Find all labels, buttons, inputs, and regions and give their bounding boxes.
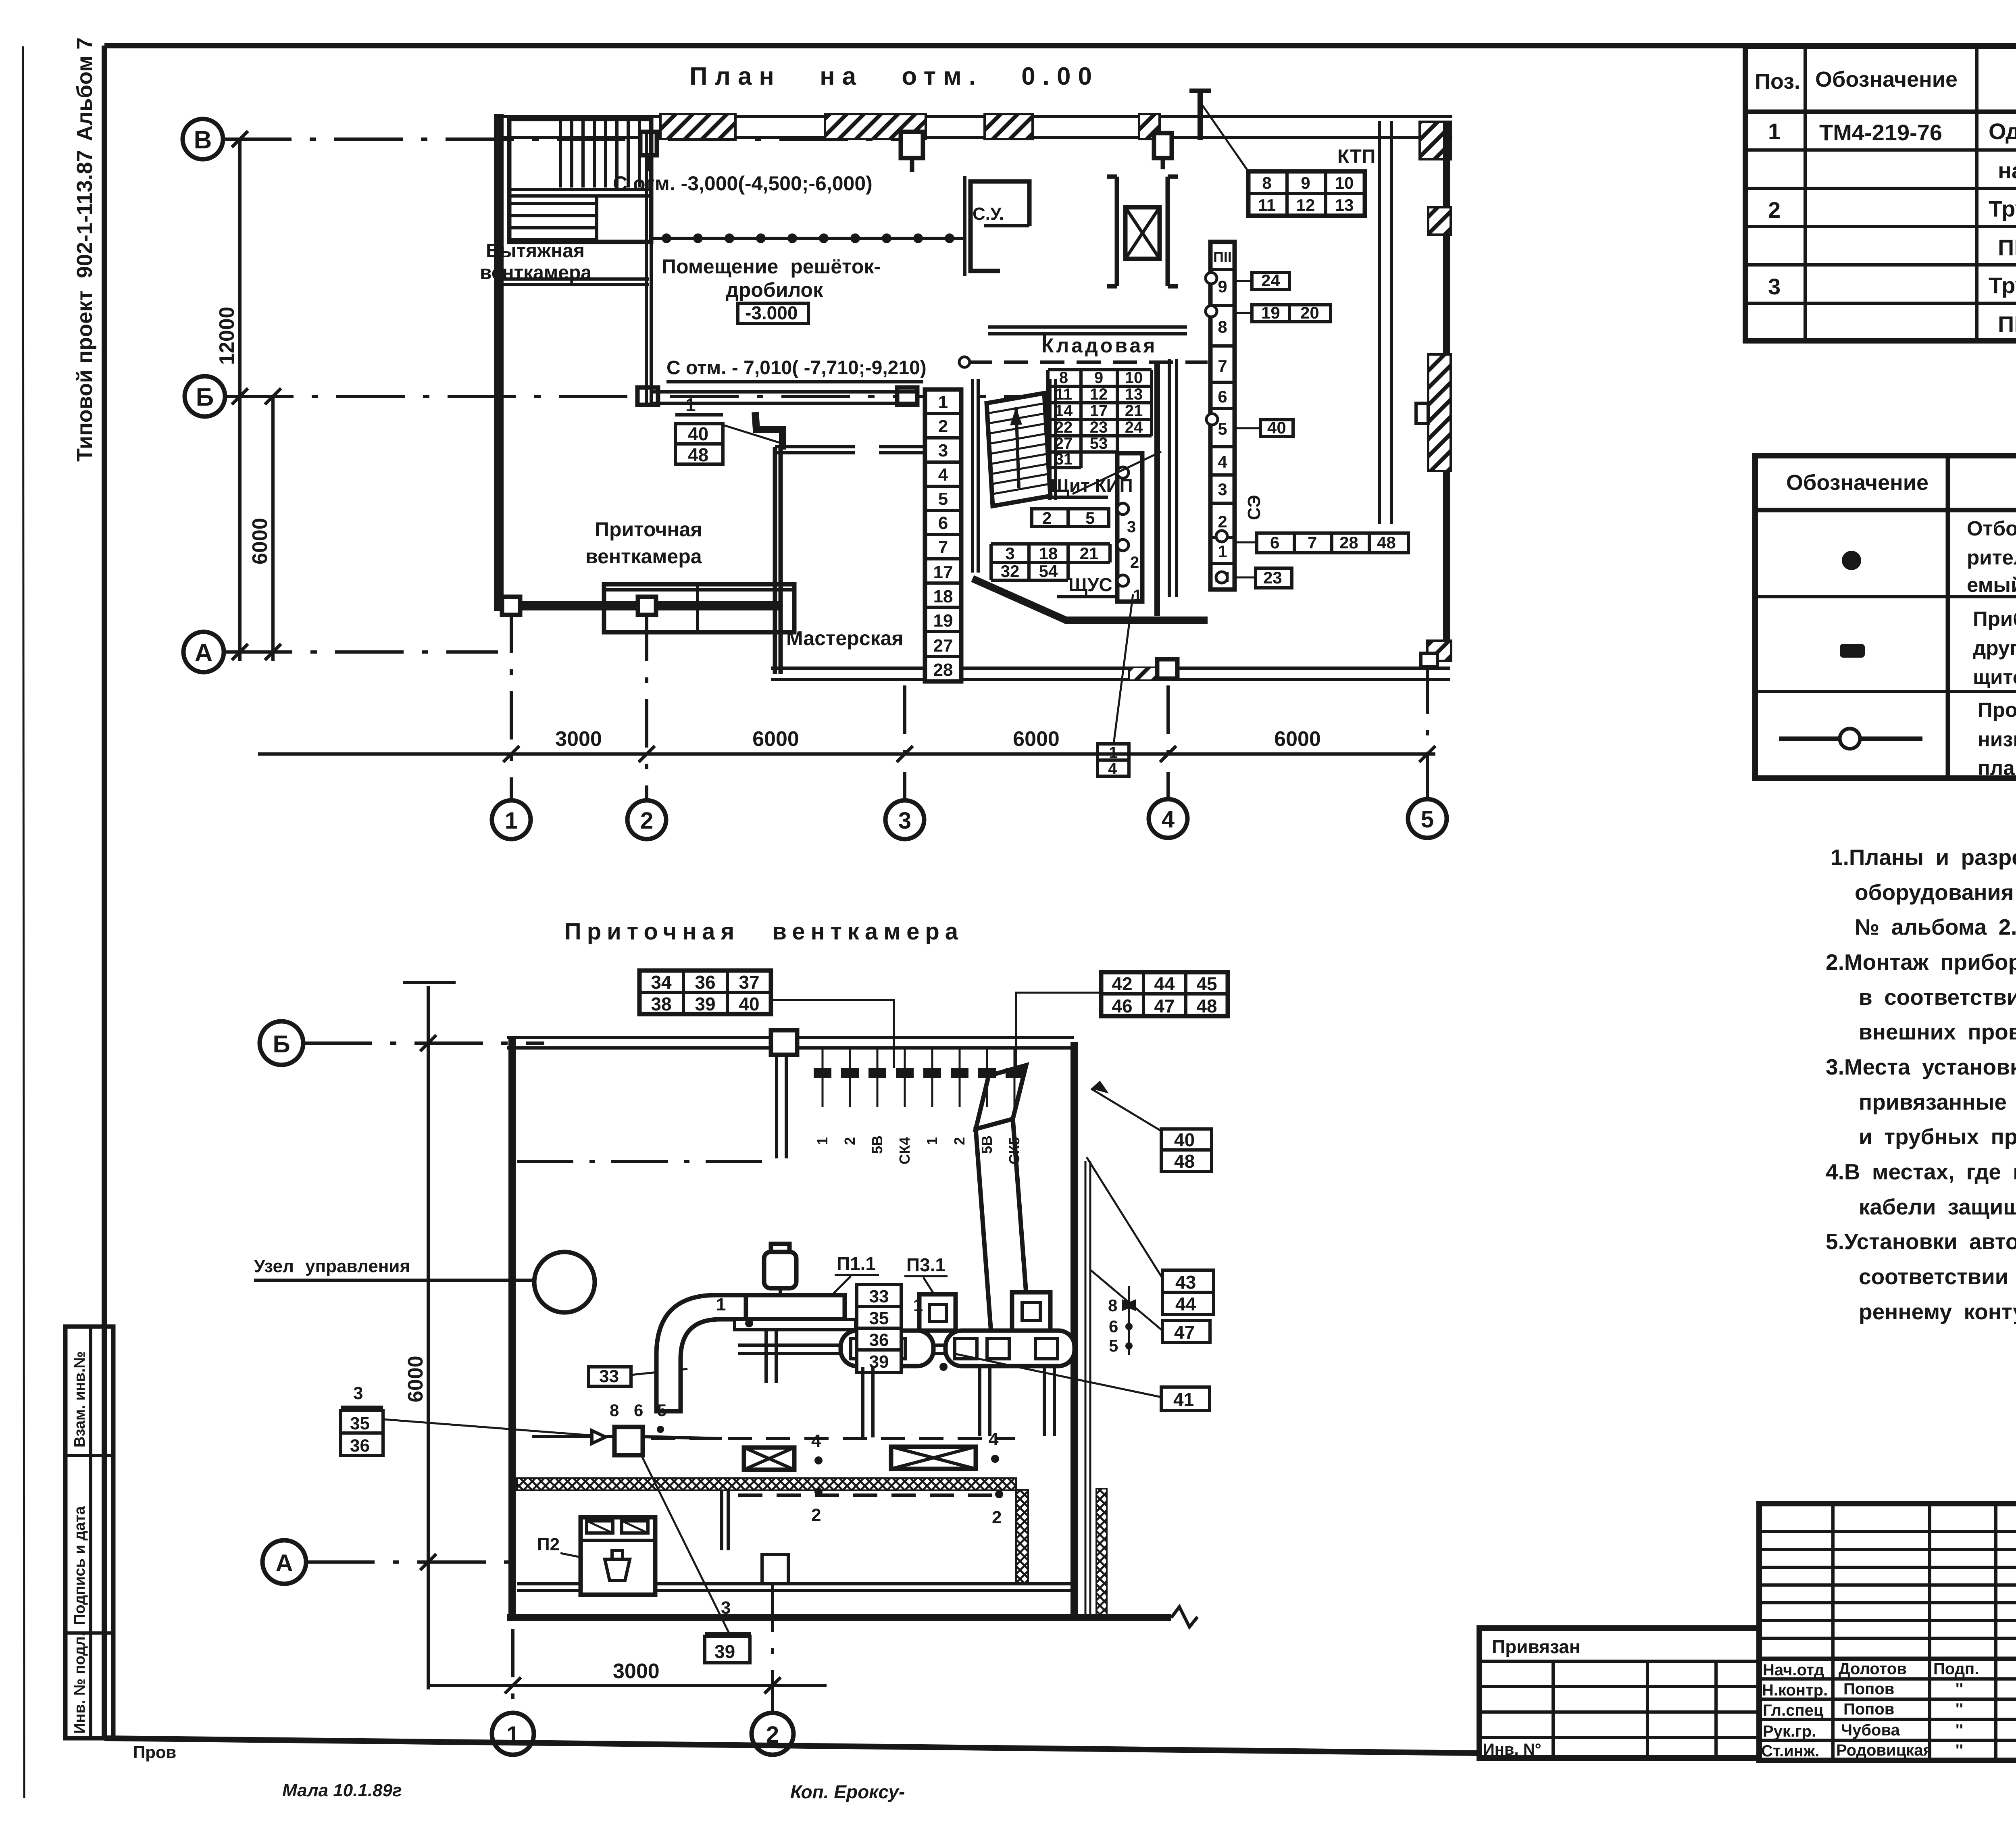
svg-text:22: 22 [1055,419,1073,436]
svg-text:2: 2 [841,1137,858,1145]
svg-text:3: 3 [938,441,948,460]
svg-text:1: 1 [814,1137,831,1145]
svg-text:21: 21 [1080,544,1099,563]
svg-text:1: 1 [1768,119,1781,144]
svg-text:П3.1: П3.1 [906,1254,946,1275]
svg-text:10: 10 [1125,369,1143,387]
svg-text:соответствии с требованием: соответствии с требованием ПУЭ присоедин… [1859,1264,2016,1289]
svg-text:3: 3 [1005,544,1014,563]
svg-text:36: 36 [695,972,715,993]
svg-text:33: 33 [869,1287,889,1306]
svg-text:39: 39 [695,994,715,1014]
svg-text:902-1-113.87: 902-1-113.87 [73,150,97,278]
svg-text:13: 13 [1125,385,1143,403]
svg-text:40: 40 [739,994,759,1014]
svg-text:23: 23 [1263,568,1282,587]
svg-text:1: 1 [913,1296,923,1315]
svg-text:40: 40 [1267,418,1286,437]
svg-text:щитов: щитов [1973,666,2016,689]
svg-text:венткамера: венткамера [480,262,591,283]
svg-text:1: 1 [505,808,518,834]
svg-text:7: 7 [1218,356,1227,375]
svg-text:Мала 10.1.89г: Мала 10.1.89г [282,1781,402,1800]
svg-text:8: 8 [1059,369,1068,387]
svg-text:Вытяжная: Вытяжная [486,240,585,262]
svg-text:кабели защищаются трубой.: кабели защищаются трубой. [1859,1194,2016,1219]
svg-text:Рук.гр.: Рук.гр. [1763,1723,1816,1740]
svg-text:-3.000: -3.000 [745,302,798,323]
svg-text:3: 3 [721,1598,731,1618]
svg-text:42: 42 [1112,973,1132,994]
svg-text:Типовой проект: Типовой проект [73,290,97,462]
svg-text:и трубных проводок уточнит: и трубных проводок уточнить по месту. [1859,1124,2016,1149]
svg-text:Мастерская: Мастерская [786,627,904,650]
svg-text:1: 1 [1218,542,1227,561]
svg-text:28: 28 [933,660,953,680]
svg-text:5: 5 [1218,419,1227,438]
svg-text:45: 45 [1196,973,1217,994]
svg-text:2: 2 [640,808,653,834]
svg-text:Обозначение: Обозначение [1815,67,1958,92]
svg-text:6: 6 [1270,533,1279,552]
svg-text:4: 4 [938,465,948,485]
svg-text:40: 40 [688,423,708,444]
svg-text:Попов: Попов [1843,1680,1894,1698]
svg-text:Родовицкая: Родовицкая [1836,1741,1933,1759]
svg-text:4: 4 [811,1431,821,1451]
svg-text:47: 47 [1154,996,1175,1016]
svg-text:Одиночное крепление кабелей: Одиночное крепление кабелей [1989,119,2016,144]
svg-text:24: 24 [1261,271,1280,290]
svg-text:Н.контр.: Н.контр. [1762,1681,1828,1699]
svg-text:Б: Б [273,1031,290,1058]
svg-text:39: 39 [714,1641,735,1662]
svg-text:3: 3 [1127,518,1136,536]
svg-text:21: 21 [1125,402,1143,420]
svg-text:3: 3 [1768,274,1781,299]
svg-text:54: 54 [1039,562,1058,581]
svg-text:5.Установки автоматизации, п: 5.Установки автоматизации, подлежащие за… [1826,1229,2016,1254]
svg-text:Инв. N°: Инв. N° [1483,1741,1541,1758]
svg-text:13: 13 [1335,196,1354,215]
svg-text:9: 9 [1094,369,1103,387]
svg-text:П1.1: П1.1 [837,1253,876,1274]
svg-text:46: 46 [1112,996,1132,1016]
svg-text:венткамера: венткамера [585,545,702,568]
svg-text:ПВХ-В-Р-ЭП32У ТУБ-19-215-8: ПВХ-В-Р-ЭП32У ТУБ-19-215-83 [1998,235,2016,260]
svg-text:11: 11 [1258,196,1276,215]
svg-text:1: 1 [1133,587,1142,604]
svg-text:41: 41 [1173,1389,1194,1410]
svg-text:8: 8 [1218,317,1227,336]
svg-text:В: В [194,126,212,154]
svg-text:низкую отметку, охватываему: низкую отметку, охватываемую данным [1978,728,2016,751]
svg-text:2: 2 [1768,197,1781,223]
svg-text:2: 2 [1218,512,1227,531]
svg-text:53: 53 [1090,435,1108,452]
svg-text:'': '' [1956,1741,1963,1759]
svg-text:оборудования приняты по техн: оборудования приняты по технологическим … [1855,880,2016,905]
svg-text:11: 11 [1055,385,1072,403]
svg-text:1: 1 [685,394,696,415]
svg-text:24: 24 [1125,419,1143,436]
svg-text:4.В местах, где возможны ме: 4.В местах, где возможны механические по… [1826,1159,2016,1184]
svg-text:9: 9 [1301,173,1310,192]
svg-text:Кладовая: Кладовая [1041,334,1157,357]
svg-text:6000: 6000 [752,727,799,751]
svg-text:А: А [195,639,213,667]
svg-text:14: 14 [1055,402,1073,420]
svg-text:44: 44 [1154,973,1175,994]
svg-text:Подп.: Подп. [1933,1660,1979,1678]
svg-text:44: 44 [1175,1293,1196,1314]
svg-text:5В: 5В [979,1135,995,1154]
svg-text:12: 12 [1296,196,1315,215]
svg-text:3: 3 [353,1383,363,1403]
svg-text:48: 48 [688,444,708,465]
svg-text:1: 1 [506,1722,519,1748]
svg-text:Помещение решёток-: Помещение решёток- [662,255,881,278]
svg-text:Подпись и дата: Подпись и дата [71,1506,88,1625]
svg-text:С отм. - 7,010( -7,710;-9,210: С отм. - 7,010( -7,710;-9,210) [666,357,927,379]
svg-text:37: 37 [739,972,759,993]
svg-text:Инв. № подл.: Инв. № подл. [71,1632,88,1734]
svg-text:38: 38 [651,994,671,1014]
svg-text:27: 27 [1055,435,1073,452]
svg-text:2: 2 [811,1505,821,1525]
svg-text:С.У.: С.У. [973,204,1004,224]
svg-text:С отм. -3,000(-4,500;-6,000): С отм. -3,000(-4,500;-6,000) [613,172,873,195]
svg-text:12: 12 [1090,385,1108,403]
svg-text:35: 35 [350,1414,370,1433]
svg-text:СК5: СК5 [1006,1137,1023,1164]
svg-text:8: 8 [1262,173,1271,192]
svg-text:17: 17 [933,562,953,582]
svg-text:4: 4 [1108,760,1117,778]
svg-text:4: 4 [1162,806,1175,833]
svg-text:33: 33 [599,1366,619,1386]
svg-text:1: 1 [938,392,948,412]
svg-text:Нач.отд: Нач.отд [1763,1661,1824,1679]
svg-text:2.Монтаж приборов и средств: 2.Монтаж приборов и средств автоматизаци… [1826,950,2016,975]
svg-text:17: 17 [1090,402,1108,420]
svg-text:20: 20 [1300,303,1319,322]
svg-text:Отборное устройство, первичн: Отборное устройство, первичный изме- [1967,517,2016,540]
svg-text:5: 5 [1109,1336,1118,1355]
svg-text:Приточная венткамера: Приточная венткамера [564,919,964,945]
svg-text:Ст.инж.: Ст.инж. [1761,1742,1819,1760]
svg-text:Коп. Ероксу-: Коп. Ероксу- [790,1781,905,1802]
svg-text:2: 2 [1042,508,1052,527]
svg-text:19: 19 [1261,303,1280,322]
svg-text:8: 8 [1108,1296,1117,1315]
svg-text:привязанные на чертеже, а: привязанные на чертеже, а также трассы к… [1859,1089,2016,1114]
svg-text:7: 7 [938,537,948,557]
svg-text:3: 3 [898,808,911,834]
svg-text:36: 36 [869,1330,889,1350]
svg-text:4: 4 [1218,452,1227,471]
svg-text:43: 43 [1175,1272,1196,1293]
svg-text:7: 7 [1308,533,1317,552]
svg-text:36: 36 [350,1436,370,1456]
svg-text:Узел управления: Узел управления [254,1256,410,1276]
svg-text:8: 8 [610,1401,619,1420]
svg-text:Приточная: Приточная [595,518,702,541]
svg-text:1: 1 [716,1295,726,1314]
svg-text:34: 34 [651,972,672,993]
svg-text:5: 5 [938,489,948,509]
svg-text:5: 5 [1421,806,1434,833]
svg-text:План на отм. 0.00: План на отм. 0.00 [689,62,1099,90]
svg-text:5: 5 [1085,508,1095,527]
svg-text:2: 2 [951,1137,968,1145]
svg-text:№ альбома 2.: № альбома 2. [1855,914,2016,939]
svg-text:3000: 3000 [613,1660,660,1683]
svg-text:Чубова: Чубова [1841,1721,1900,1739]
svg-text:12000: 12000 [215,306,239,365]
svg-text:48: 48 [1196,996,1217,1016]
svg-text:Труба поливинилхлоридная: Труба поливинилхлоридная [1989,196,2016,221]
svg-text:2: 2 [766,1722,779,1748]
svg-text:9: 9 [1218,277,1227,296]
svg-text:внешних проводок L 9,10,11,1: внешних проводок L 9,10,11,12,13 . [1859,1019,2016,1044]
svg-text:4: 4 [989,1429,999,1449]
svg-text:СК4: СК4 [896,1137,913,1164]
svg-text:'': '' [1956,1700,1963,1718]
svg-text:18: 18 [1039,544,1058,563]
svg-text:Б: Б [196,383,214,411]
svg-text:Пров: Пров [133,1743,176,1762]
svg-text:2: 2 [938,417,948,436]
svg-text:А: А [275,1550,293,1577]
svg-text:6000: 6000 [1013,727,1060,751]
svg-text:СЭ: СЭ [1244,495,1264,521]
svg-text:реннему контуру заземления.: реннему контуру заземления. [1859,1299,2016,1324]
svg-text:31: 31 [1055,450,1073,468]
svg-text:П2: П2 [537,1535,560,1554]
svg-text:6: 6 [1109,1317,1118,1336]
svg-text:6000: 6000 [248,518,272,564]
svg-text:23: 23 [1090,419,1108,436]
svg-text:3: 3 [1218,480,1227,499]
svg-text:ТМ4-219-76: ТМ4-219-76 [1819,120,1942,145]
svg-text:'': '' [1956,1721,1963,1739]
svg-text:1: 1 [924,1137,940,1145]
svg-text:Попов: Попов [1843,1700,1894,1718]
svg-text:планом.: планом. [1978,756,2016,779]
svg-text:2: 2 [1130,554,1139,571]
svg-text:Привязан: Привязан [1492,1636,1581,1657]
svg-text:47: 47 [1174,1322,1195,1343]
svg-text:48: 48 [1377,533,1396,552]
svg-text:18: 18 [933,587,953,606]
svg-text:1.Планы и разрезы с располож: 1.Планы и разрезы с расположением технол… [1831,845,2016,870]
svg-text:32: 32 [1001,562,1020,581]
svg-text:Проводка уходит на более: Проводка уходит на более высокую или [1978,698,2016,721]
svg-text:ПІІ: ПІІ [1213,249,1232,265]
svg-text:Долотов: Долотов [1839,1660,1907,1678]
svg-text:Гл.спец: Гл.спец [1763,1702,1824,1719]
svg-text:Поз.: Поз. [1755,69,1800,94]
svg-text:10: 10 [1335,173,1354,192]
svg-text:6000: 6000 [1274,727,1321,751]
svg-text:Труба полиэтиленовая: Труба полиэтиленовая [1989,273,2016,298]
svg-text:6: 6 [634,1401,643,1420]
svg-text:Прибор, регулятор, электроап: Прибор, регулятор, электроаппаратура и [1973,607,2016,630]
svg-text:Взам. инв.№: Взам. инв.№ [71,1351,88,1448]
svg-text:6000: 6000 [404,1356,427,1402]
svg-text:КТП: КТП [1337,146,1375,167]
svg-text:рительный прибор или датчик: рительный прибор или датчик, встраива- [1967,546,2016,569]
svg-text:27: 27 [933,636,953,656]
svg-text:6: 6 [938,513,948,533]
svg-text:5В: 5В [869,1135,885,1154]
svg-text:35: 35 [869,1308,889,1328]
svg-text:6: 6 [1218,387,1227,406]
svg-text:5: 5 [657,1401,666,1420]
svg-text:'': '' [1956,1680,1963,1698]
svg-text:на стене: на стене [1998,158,2016,183]
svg-text:другое оборудование, устанав: другое оборудование, устанавливаемое вне [1973,637,2016,660]
svg-text:28: 28 [1339,533,1358,552]
svg-text:ЩУС: ЩУС [1068,574,1112,595]
svg-text:емый в технологическое обор: емый в технологическое оборудование. [1967,573,2016,596]
svg-text:2: 2 [992,1508,1002,1527]
svg-text:3.Места установки приборов: 3.Места установки приборов и средств авт… [1826,1054,2016,1079]
svg-text:40: 40 [1174,1129,1195,1150]
svg-text:ПВД-25С ГОСТ 18599-83: ПВД-25С ГОСТ 18599-83 [1998,311,2016,337]
svg-text:дробилок: дробилок [726,279,823,301]
svg-text:1: 1 [1109,744,1118,762]
svg-text:19: 19 [933,611,953,631]
svg-text:48: 48 [1174,1151,1195,1172]
svg-text:Альбом 7: Альбом 7 [73,37,97,141]
svg-text:Обозначение: Обозначение [1786,471,1929,495]
svg-text:3000: 3000 [555,727,602,751]
svg-text:в соответствии с требования: в соответствии с требованиями СНИП 3.05.… [1859,985,2016,1010]
